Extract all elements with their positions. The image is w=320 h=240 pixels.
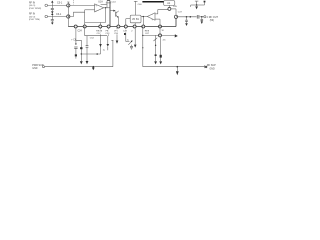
- main supply rail: [68, 26, 176, 28]
- second rail right: [143, 34, 175, 36]
- svg-text:2: 2: [131, 31, 133, 33]
- plus plate C8: [75, 54, 77, 56]
- op-amp U1-A: [95, 4, 104, 12]
- arrow up at input 1: [51, 2, 53, 5]
- bottom wire left: [45, 66, 113, 68]
- svg-text:-: -: [152, 14, 153, 17]
- svg-text:C57: C57: [97, 33, 102, 35]
- trimmer arrow: [128, 41, 131, 44]
- junction dot before connector: [201, 16, 203, 18]
- trimmer chain C48: [125, 28, 127, 29]
- wire U1-B top input: [155, 10, 169, 14]
- ground arrow input2: [51, 23, 54, 25]
- dashed leader U1: [73, 0, 75, 4]
- wire J1 to +input: [48, 4, 95, 6]
- rail junction circle 8: [142, 25, 145, 28]
- svg-text:RF IN: RF IN: [29, 2, 35, 4]
- rail junction circle 9: [159, 25, 162, 28]
- svg-text:C44: C44: [112, 2, 117, 4]
- wire rail up to output node: [175, 18, 177, 26]
- wire down to output junction: [175, 9, 177, 15]
- wire under box U2 to ground: [134, 28, 136, 45]
- svg-text:C47: C47: [178, 11, 183, 13]
- wire Q1 emitter to rail: [117, 17, 119, 26]
- capacitor C1 to ground: [51, 5, 53, 8]
- svg-text:(50): (50): [210, 20, 214, 22]
- capacitor chain C8: [76, 40, 81, 54]
- jumper stub to top edge: [106, 1, 108, 8]
- svg-text:J RF OUT: J RF OUT: [207, 16, 219, 19]
- capacitor chain right A: [155, 35, 157, 61]
- arrow into Q1 base: [110, 10, 114, 12]
- junction dot output line: [190, 16, 192, 18]
- ground arrow RC: [195, 6, 198, 9]
- svg-text:-: -: [96, 8, 97, 12]
- IC box U2: [130, 15, 141, 23]
- label J5: [207, 64, 216, 71]
- svg-text:C53: C53: [105, 33, 110, 35]
- wire box U2 left: [126, 18, 130, 20]
- ground arrow bottom right: [176, 67, 178, 72]
- svg-text:W: W: [162, 30, 165, 32]
- svg-text:GND: GND: [32, 68, 37, 70]
- label C5: [57, 2, 63, 5]
- junction dot C8 node: [81, 53, 82, 54]
- svg-text:PWR SUP: PWR SUP: [32, 64, 44, 67]
- capacitor chain right B: [160, 37, 162, 62]
- node junction circle B: [67, 15, 70, 18]
- svg-text:(P-BY DRVR): (P-BY DRVR): [29, 8, 41, 10]
- wire J2: [48, 16, 69, 18]
- svg-text:C24: C24: [78, 31, 83, 33]
- connector J1 circle: [45, 4, 48, 7]
- label C6: [56, 13, 62, 16]
- transistor Q1: [115, 12, 117, 17]
- junction dot bottom node: [96, 53, 98, 55]
- junction dot ground left: [93, 66, 95, 68]
- vertical wire input bus: [67, 2, 69, 27]
- wire triangle input down through rails: [159, 19, 161, 35]
- svg-text:1u: 1u: [127, 39, 130, 41]
- svg-text:2m: 2m: [163, 40, 166, 42]
- connector J5 circle: [205, 66, 207, 68]
- resistor chain RE8/C67: [142, 27, 144, 67]
- svg-text:C55: C55: [114, 33, 119, 35]
- shunt cap to ground at connector: [201, 17, 203, 20]
- wire feedback vertical: [84, 10, 86, 27]
- svg-text:(50 O): (50 O): [29, 16, 35, 18]
- junction dot C: [143, 16, 144, 17]
- rail junction circle 5: [117, 25, 120, 28]
- IC box U3: [164, 1, 175, 6]
- connector J4 PWR labels: [32, 64, 44, 70]
- svg-text:B1: B1: [136, 18, 140, 21]
- capacitor C2 to ground: [51, 17, 53, 20]
- ground arrow right A: [154, 61, 157, 64]
- junction dot output: [105, 7, 106, 8]
- ground arrow output: [201, 21, 203, 24]
- node circle second rail: [159, 34, 162, 37]
- power stub op-amp: [101, 4, 107, 6]
- connector J3 circle: [204, 16, 206, 18]
- rail junction circle 2: [83, 25, 86, 28]
- RF output line: [176, 16, 197, 18]
- ground arrow C8: [80, 61, 83, 64]
- label U1-A: [98, 0, 103, 3]
- svg-text:A1: A1: [167, 2, 171, 5]
- svg-text:C45: C45: [173, 6, 178, 8]
- series cap C49: [196, 15, 198, 19]
- thick feedback bar: [142, 1, 163, 3]
- svg-text:+ C8: + C8: [71, 40, 77, 42]
- svg-text:C52: C52: [90, 38, 95, 40]
- connector J1 RF IN labels: [29, 2, 41, 10]
- shunt cap C output 1: [186, 16, 188, 18]
- arrow up at input 2: [51, 15, 53, 17]
- label RF OUT: [207, 16, 219, 22]
- label TP: [173, 6, 183, 13]
- ground arrow C52: [86, 61, 89, 64]
- svg-text:U1A: U1A: [98, 0, 103, 3]
- svg-text:C48: C48: [123, 31, 128, 33]
- rail junction circle 4: [107, 25, 110, 28]
- svg-text:C6-1: C6-1: [56, 13, 62, 16]
- svg-text:GND: GND: [210, 69, 215, 71]
- connector J4 circle: [43, 66, 45, 68]
- connector J2 RF IN labels: [29, 14, 40, 22]
- svg-text:RF IN: RF IN: [29, 14, 35, 16]
- RC network top right: [191, 4, 205, 6]
- wire node C to rail: [142, 17, 144, 27]
- wire box U2 top pin: [135, 1, 137, 15]
- wire Q1 collector: [117, 10, 119, 13]
- label under junction 7: [131, 31, 133, 33]
- label C58: [163, 40, 166, 42]
- node output junction circle: [174, 15, 177, 18]
- resistor chain RE7A/C57: [99, 28, 101, 29]
- wire box U2 right: [141, 16, 147, 18]
- ground chain from second rail: [107, 36, 109, 44]
- svg-text:1u: 1u: [103, 50, 106, 52]
- junction dot ground right: [177, 66, 179, 68]
- feedback wire R2: [105, 8, 107, 23]
- wire J2 step to inverting input: [68, 12, 84, 16]
- ground stub mid: [103, 50, 106, 52]
- ground arrow right B: [159, 61, 162, 64]
- rail junction circle 7: [133, 25, 136, 28]
- capacitor chain JP1/C55: [116, 28, 118, 29]
- wire output down to rail: [109, 1, 111, 27]
- svg-text:(P-BY TRM): (P-BY TRM): [29, 19, 40, 21]
- bottom wire right: [143, 66, 205, 68]
- capacitor C52: [86, 36, 88, 46]
- svg-text:C67: C67: [145, 33, 150, 35]
- wire TP to output node: [171, 8, 176, 10]
- capacitor chain FB/C53: [108, 28, 110, 29]
- node junction circle A: [67, 4, 70, 7]
- wire riser left: [112, 40, 114, 66]
- wire box U2 bottom to rail: [134, 23, 136, 27]
- wire chain to bottom node: [100, 36, 102, 54]
- ground arrow input1: [51, 11, 54, 13]
- ground arrow bottom left: [92, 68, 95, 71]
- rail junction circle 1: [74, 25, 77, 28]
- wire box U3 down: [168, 5, 170, 8]
- wire U1-B bottom input: [155, 18, 160, 20]
- wire C8 bottom node: [81, 53, 100, 55]
- svg-text:C46: C46: [138, 4, 143, 6]
- connector J2 circle: [45, 15, 48, 18]
- svg-text:C5-1: C5-1: [57, 2, 63, 5]
- svg-text:RF SUP: RF SUP: [207, 64, 216, 67]
- rail junction circle 3: [99, 25, 102, 28]
- node TP circle: [168, 7, 171, 10]
- second rail left: [84, 27, 86, 36]
- svg-text:(50 O): (50 O): [29, 5, 35, 7]
- op-amp U1-B reversed: [147, 13, 155, 20]
- capacitor chain C24: [75, 28, 77, 44]
- rail junction circle 6: [124, 25, 127, 28]
- connector J5 tick: [204, 65, 206, 68]
- ground arrow chain 5: [116, 41, 119, 44]
- op-amp output wire: [104, 7, 110, 9]
